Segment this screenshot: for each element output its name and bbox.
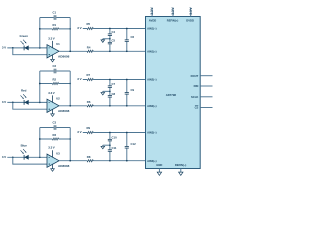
svg-text:C5: C5 [112, 39, 116, 43]
wire op-amp output stage 3 [59, 160, 146, 162]
node diff cap tap bottom stage 3 [126, 160, 128, 162]
wire digital stub [200, 96, 212, 98]
wire supply stub [190, 8, 192, 17]
svg-text:C2: C2 [53, 64, 57, 68]
wire feedback left vertical stage 2 [39, 71, 41, 102]
ground REFIN(-) stub [180, 169, 182, 173]
svg-text:AD8608: AD8608 [58, 55, 70, 59]
svg-text:3 V: 3 V [77, 77, 81, 81]
node diff cap tap bottom stage 2 [126, 105, 128, 107]
power 3.3V supply stub stage 3 [52, 150, 54, 157]
svg-text:3.3 V: 3.3 V [48, 91, 55, 95]
node feedback rail right junction stage 1 [69, 28, 71, 30]
wire filter cap branch stage 1 [109, 29, 111, 52]
resistor R1 feedback [52, 27, 58, 30]
ground op-amp stage 2 [52, 109, 54, 114]
wire feedback left vertical stage 1 [39, 18, 41, 48]
svg-text:CS: CS [195, 106, 199, 110]
wire to non-inverting input stage 1 [13, 48, 47, 55]
ground op-amp stage 1 [52, 55, 54, 60]
svg-text:GND: GND [156, 163, 162, 167]
resistor R9 reference [87, 131, 93, 134]
svg-text:AIN2(+): AIN2(+) [147, 104, 157, 108]
capacitor C3 feedback [54, 126, 57, 128]
svg-text:AIN2(−): AIN2(−) [147, 78, 157, 82]
svg-text:Blue: Blue [21, 143, 28, 147]
svg-text:3 V: 3 V [2, 155, 6, 159]
svg-text:C4: C4 [112, 30, 116, 34]
photodiode D3 Blue [21, 149, 29, 160]
wire photodiode input stage 2 [7, 101, 47, 103]
node junction input split stage 2 [12, 102, 14, 104]
pin CS overline [195, 105, 198, 107]
svg-text:R4: R4 [87, 46, 91, 50]
node diff cap tap top stage 2 [126, 79, 128, 81]
svg-text:C10: C10 [112, 135, 118, 139]
svg-text:AD8608: AD8608 [58, 109, 70, 113]
node feedback rail right junction stage 3 [69, 138, 71, 140]
wire reference line stage 2 [83, 79, 146, 81]
ground GND stub [158, 169, 160, 173]
svg-text:C6: C6 [131, 35, 135, 39]
op-amp U2 AD8608 [47, 99, 59, 112]
svg-text:C3: C3 [53, 121, 57, 125]
resistor R8 series output [87, 159, 93, 162]
op-amp U3 AD8608 [47, 154, 59, 167]
wire feedback R rail stage 1 [40, 28, 70, 30]
node output junction stage 3 [69, 160, 71, 162]
svg-text:R1: R1 [53, 23, 57, 27]
wire digital stub [200, 75, 212, 77]
svg-text:Red: Red [21, 89, 27, 93]
wire digital stub [200, 107, 212, 109]
svg-text:3.3 V: 3.3 V [150, 7, 154, 15]
capacitor C4 [107, 34, 113, 36]
svg-text:3.3 V: 3.3 V [48, 36, 55, 40]
node filter tap bottom stage 2 [109, 105, 111, 107]
svg-text:R9: R9 [87, 126, 91, 130]
wire feedback R rail stage 3 [40, 138, 70, 140]
svg-text:C9: C9 [131, 88, 135, 92]
ground filter midpoint stage 1 [103, 38, 110, 40]
node junction input split stage 3 [12, 156, 14, 158]
svg-text:R8: R8 [87, 155, 91, 159]
node filter tap top stage 2 [109, 79, 111, 81]
capacitor C12 differential [126, 133, 128, 161]
svg-text:AD8608: AD8608 [58, 164, 70, 168]
svg-text:3.3 V: 3.3 V [189, 7, 193, 15]
node feedback rail right junction stage 2 [69, 83, 71, 85]
svg-text:DIN: DIN [194, 84, 199, 88]
ground filter midpoint stage 2 [103, 90, 110, 92]
wire to non-inverting input stage 2 [13, 102, 47, 109]
svg-text:3.3 V: 3.3 V [171, 7, 175, 15]
node filter tap bottom stage 1 [109, 50, 111, 52]
resistor R5 reference [87, 27, 93, 30]
node junction feedback tap stage 3 [39, 156, 41, 158]
capacitor C1 feedback [54, 16, 57, 18]
svg-text:AIN1(+): AIN1(+) [147, 49, 157, 53]
svg-text:AVDD: AVDD [149, 19, 156, 23]
svg-text:REFIN(+): REFIN(+) [167, 19, 179, 23]
resistor R2 feedback [52, 82, 58, 85]
svg-text:AD7798: AD7798 [166, 93, 177, 97]
capacitor C6 differential [126, 29, 128, 52]
node output junction stage 2 [69, 105, 71, 107]
capacitor C10 [107, 139, 113, 141]
svg-text:DOUT: DOUT [191, 74, 199, 78]
wire to non-inverting input stage 3 [13, 157, 47, 164]
capacitor C8 [107, 95, 113, 97]
node junction input split stage 1 [12, 47, 14, 49]
node feedback rail left junction stage 3 [39, 138, 41, 140]
svg-text:C8: C8 [112, 92, 116, 96]
node filter tap top stage 3 [109, 132, 111, 134]
wire reference line stage 1 [83, 28, 146, 30]
resistor R3 feedback [52, 138, 58, 141]
wire feedback C rail stage 1 [40, 17, 70, 19]
node junction feedback tap stage 2 [39, 102, 41, 104]
svg-text:3.3 V: 3.3 V [48, 146, 55, 150]
wire feedback R rail stage 2 [40, 83, 70, 85]
svg-text:R7: R7 [87, 73, 91, 77]
svg-text:3 V: 3 V [77, 26, 81, 30]
svg-text:C12: C12 [131, 142, 137, 146]
node feedback rail left junction stage 1 [39, 28, 41, 30]
op-amp U1 AD8608 [47, 45, 59, 58]
capacitor C2 feedback [54, 70, 57, 72]
capacitor C11 [107, 150, 113, 152]
wire feedback C rail stage 3 [40, 127, 70, 129]
wire supply stub [151, 8, 153, 17]
wire filter cap branch stage 3 [109, 133, 111, 161]
node junction feedback tap stage 1 [39, 47, 41, 49]
wire feedback right vertical stage 1 [69, 18, 71, 52]
node feedback rail left junction stage 2 [39, 83, 41, 85]
ground filter midpoint stage 3 [103, 144, 110, 146]
svg-text:REFIN(−): REFIN(−) [175, 163, 187, 167]
photodiode D1 Green [21, 40, 29, 51]
node diff cap tap top stage 1 [126, 28, 128, 30]
node filter tap bottom stage 3 [109, 160, 111, 162]
wire photodiode input stage 1 [7, 47, 47, 49]
wire filter cap branch stage 2 [109, 80, 111, 106]
svg-text:SCLK: SCLK [191, 95, 198, 99]
resistor R6 series output [87, 104, 93, 107]
node diff cap tap bottom stage 1 [126, 50, 128, 52]
resistor R7 reference [87, 78, 93, 81]
svg-text:U3: U3 [56, 151, 60, 155]
wire feedback left vertical stage 3 [39, 128, 41, 158]
svg-text:AIN3(−): AIN3(−) [147, 131, 157, 135]
svg-text:3 V: 3 V [2, 46, 6, 50]
node output junction stage 1 [69, 50, 71, 52]
ground op-amp stage 3 [52, 164, 54, 169]
svg-text:Green: Green [20, 34, 29, 38]
svg-text:C1: C1 [53, 11, 57, 15]
node filter tap top stage 1 [109, 28, 111, 30]
wire supply stub [172, 8, 174, 17]
svg-text:AIN3(+): AIN3(+) [147, 159, 157, 163]
svg-text:C7: C7 [112, 82, 116, 86]
svg-text:R2: R2 [53, 78, 57, 82]
svg-text:DVDD: DVDD [186, 19, 194, 23]
wire feedback right vertical stage 3 [69, 128, 71, 161]
wire feedback right vertical stage 2 [69, 71, 71, 106]
wire feedback C rail stage 2 [40, 70, 70, 72]
capacitor C7 [107, 86, 113, 88]
svg-text:R6: R6 [87, 100, 91, 104]
svg-text:3 V: 3 V [2, 100, 6, 104]
svg-text:3 V: 3 V [77, 130, 81, 134]
svg-text:AIN1(−): AIN1(−) [147, 27, 157, 31]
wire op-amp output stage 1 [59, 50, 146, 52]
photodiode D2 Red [21, 94, 29, 105]
wire digital stub [200, 85, 212, 87]
svg-text:R3: R3 [53, 133, 57, 137]
wire op-amp output stage 2 [59, 105, 146, 107]
capacitor C9 differential [126, 80, 128, 106]
wire photodiode input stage 3 [7, 156, 47, 158]
wire reference line stage 3 [83, 132, 146, 134]
node diff cap tap top stage 3 [126, 132, 128, 134]
capacitor C5 [107, 42, 113, 44]
svg-text:U1: U1 [56, 42, 60, 46]
svg-text:U2: U2 [56, 97, 60, 101]
power 3.3V supply stub stage 1 [52, 41, 54, 48]
IC U4 AD7798 sigma-delta ADC [146, 17, 201, 169]
svg-text:R5: R5 [87, 22, 91, 26]
resistor R4 series output [87, 50, 93, 53]
svg-text:C11: C11 [112, 146, 117, 150]
power 3.3V supply stub stage 2 [52, 95, 54, 102]
